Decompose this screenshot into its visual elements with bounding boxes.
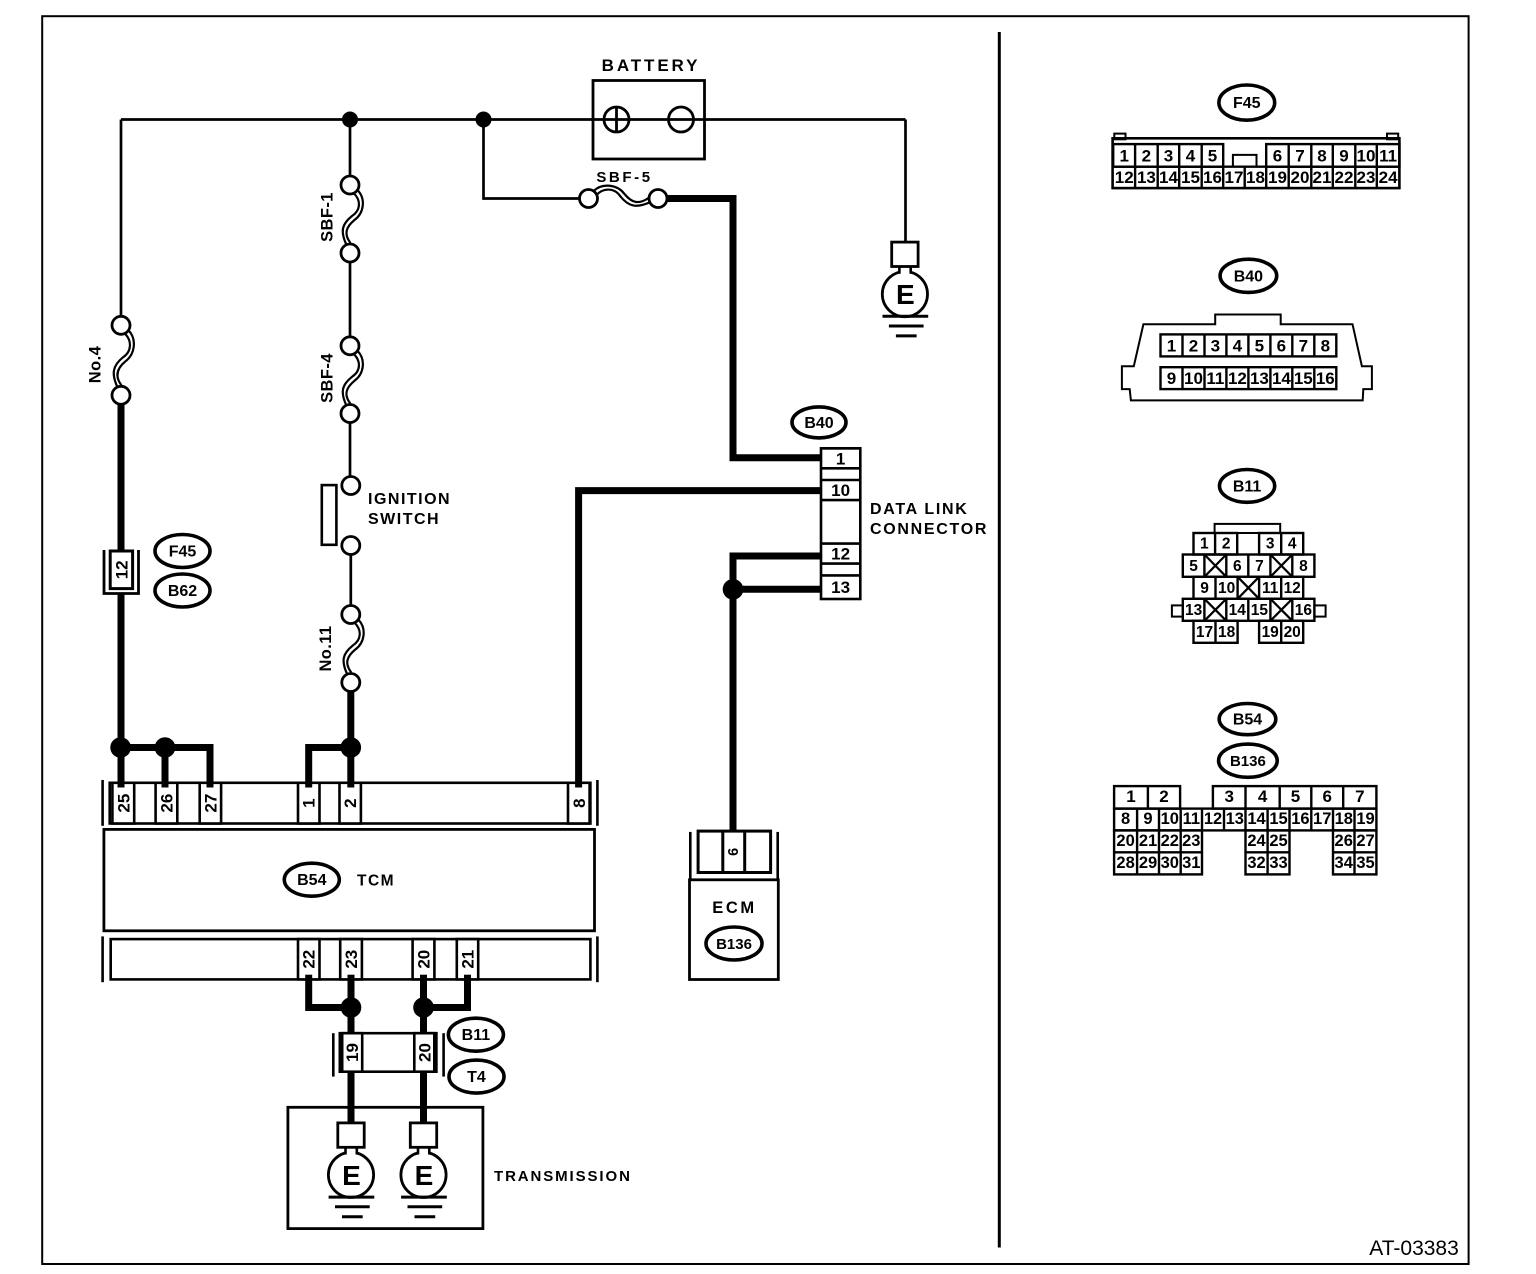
svg-text:13: 13 — [1226, 810, 1244, 828]
wire: junction to data link pin 13 (thick) — [733, 586, 821, 593]
TCM pin 27 — [200, 783, 221, 824]
data link connector divider — [821, 499, 860, 502]
svg-text:27: 27 — [201, 794, 220, 813]
wire: T4 pin 19 to transmission ground (thick) — [348, 1072, 355, 1123]
svg-text:20: 20 — [415, 1043, 434, 1062]
svg-text:15: 15 — [1294, 369, 1313, 388]
ground E (transmission 2) — [401, 1123, 447, 1217]
svg-text:6: 6 — [1273, 147, 1282, 166]
svg-text:19: 19 — [1268, 168, 1287, 187]
svg-text:23: 23 — [1357, 168, 1376, 187]
wire: No.11 to TCM pin 2 (thick) — [347, 692, 354, 783]
data link connector divider — [821, 562, 860, 565]
svg-text:34: 34 — [1335, 854, 1354, 872]
svg-text:22: 22 — [300, 950, 319, 969]
svg-text:6: 6 — [1233, 558, 1242, 575]
svg-text:8: 8 — [1321, 337, 1330, 356]
B54 pins 1-2 — [1114, 786, 1180, 809]
svg-text:18: 18 — [1246, 168, 1265, 187]
connector pinout B136 label — [1219, 744, 1278, 777]
svg-text:B136: B136 — [1230, 753, 1266, 770]
svg-text:1: 1 — [836, 449, 845, 468]
svg-text:T4: T4 — [467, 1069, 486, 1086]
wire: battery bus top horizontal — [121, 118, 906, 121]
svg-text:2: 2 — [1222, 536, 1231, 553]
data link connector pin 13 — [821, 574, 860, 577]
F45 pins 1-5 — [1113, 144, 1223, 167]
connector label B136 (ECM) — [706, 927, 762, 960]
svg-text:24: 24 — [1379, 168, 1398, 187]
svg-text:SWITCH: SWITCH — [368, 511, 440, 528]
svg-text:8: 8 — [1299, 558, 1308, 575]
svg-text:18: 18 — [1218, 624, 1236, 641]
svg-text:AT-03383: AT-03383 — [1369, 1237, 1459, 1260]
connector label B11 (inline) — [448, 1018, 503, 1051]
svg-text:16: 16 — [1316, 369, 1335, 388]
wire: SBF-4 to ignition switch — [349, 423, 352, 477]
connector pinout F45 label — [1219, 85, 1275, 120]
wire: TCM pin 21 branch (thick) — [424, 979, 468, 1007]
svg-text:3: 3 — [1164, 147, 1173, 166]
F45 pins 12-24 — [1113, 165, 1400, 167]
svg-text:B40: B40 — [1234, 268, 1263, 285]
ECM body — [690, 880, 779, 980]
TCM strip left end bar — [101, 780, 104, 826]
connector pinout B40 outline — [1122, 315, 1372, 401]
junction node above pin 2 — [341, 737, 362, 758]
battery positive terminal — [604, 107, 629, 132]
fuse holder bracket (F45/B62) — [104, 550, 139, 594]
svg-text:BATTERY: BATTERY — [602, 56, 701, 75]
wire: T4 pin 20 to transmission ground (thick) — [420, 1072, 427, 1123]
TCM strip right end bar — [596, 780, 599, 826]
svg-text:8: 8 — [1317, 147, 1326, 166]
TCM pin 25 — [112, 783, 134, 824]
svg-text:12: 12 — [1204, 810, 1222, 828]
svg-text:9: 9 — [1143, 810, 1152, 828]
svg-text:27: 27 — [1356, 832, 1374, 850]
svg-text:4: 4 — [1233, 337, 1243, 356]
svg-text:14: 14 — [1229, 602, 1247, 619]
data link connector label — [870, 501, 988, 538]
svg-text:2: 2 — [341, 798, 360, 807]
svg-text:16: 16 — [1203, 168, 1222, 187]
svg-text:B40: B40 — [804, 415, 833, 432]
ignition switch — [322, 477, 360, 555]
T4 connector right end bar — [442, 1033, 445, 1076]
svg-text:29: 29 — [1139, 854, 1157, 872]
svg-text:5: 5 — [1189, 558, 1198, 575]
svg-text:21: 21 — [459, 950, 478, 969]
svg-text:11: 11 — [1379, 147, 1397, 166]
svg-text:9: 9 — [1200, 580, 1209, 597]
B54 pins 8-19 — [1114, 809, 1376, 831]
svg-text:15: 15 — [1181, 168, 1200, 187]
F45 top tab left — [1114, 134, 1125, 140]
svg-text:5: 5 — [1208, 147, 1217, 166]
battery negative terminal — [669, 107, 694, 132]
svg-text:19: 19 — [343, 1043, 362, 1062]
svg-text:B54: B54 — [1233, 712, 1262, 729]
svg-text:8: 8 — [1121, 810, 1130, 828]
svg-text:6: 6 — [1277, 337, 1286, 356]
svg-text:SBF-1: SBF-1 — [319, 192, 337, 242]
svg-text:33: 33 — [1269, 854, 1287, 872]
B11 side tab right — [1314, 605, 1325, 616]
svg-text:11: 11 — [1262, 580, 1279, 597]
ECM connector strip — [698, 831, 771, 872]
svg-text:24: 24 — [1247, 832, 1266, 850]
svg-text:20: 20 — [1284, 624, 1301, 641]
B11 pins 5-8 row — [1183, 555, 1315, 577]
inline connector B11/T4 outer — [340, 1033, 437, 1072]
TCM pin 21 — [457, 939, 478, 979]
svg-text:E: E — [415, 1160, 434, 1191]
svg-text:17: 17 — [1225, 168, 1244, 187]
svg-text:25: 25 — [114, 794, 133, 813]
svg-text:19: 19 — [1262, 624, 1280, 641]
connector label F45 — [155, 535, 210, 568]
svg-text:9: 9 — [1339, 147, 1348, 166]
wire: TCM pin 23 to T4 pin 19 (thick) — [348, 979, 355, 1034]
svg-text:3: 3 — [1266, 536, 1275, 553]
data link connector pin 10 — [821, 479, 860, 482]
junction node: SBF-5 branch — [476, 112, 492, 128]
svg-text:16: 16 — [1291, 810, 1309, 828]
T4 pin 20 — [414, 1033, 434, 1072]
T4 pin 19 — [342, 1033, 362, 1072]
junction node: SBF-1 branch — [342, 112, 358, 128]
data link connector pin 12 — [821, 542, 860, 545]
B11 side tab left — [1172, 605, 1183, 616]
wire: ignition switch to fuse No.11 — [349, 555, 352, 606]
svg-text:17: 17 — [1313, 810, 1331, 828]
svg-text:4: 4 — [1288, 536, 1297, 553]
svg-text:10: 10 — [1218, 580, 1235, 597]
svg-text:7: 7 — [1299, 337, 1308, 356]
TCM pin 1 — [298, 783, 320, 824]
wire: fuse 12 to TCM pin 25 (thick) — [118, 594, 125, 783]
wire: No.4 to fuse holder 12 (thick) — [118, 404, 125, 551]
svg-text:5: 5 — [1255, 337, 1264, 356]
svg-text:26: 26 — [1335, 832, 1353, 850]
connector pinout B54 label — [1219, 704, 1276, 735]
svg-text:IGNITION: IGNITION — [368, 491, 451, 508]
TCM body — [104, 829, 595, 930]
svg-text:10: 10 — [1161, 810, 1179, 828]
svg-text:8: 8 — [570, 798, 589, 807]
svg-text:F45: F45 — [169, 544, 197, 561]
svg-text:13: 13 — [831, 578, 850, 597]
svg-text:30: 30 — [1161, 854, 1179, 872]
svg-text:17: 17 — [1196, 624, 1213, 641]
svg-text:B11: B11 — [462, 1027, 491, 1044]
svg-text:2: 2 — [1159, 787, 1168, 806]
svg-text:12: 12 — [1228, 369, 1247, 388]
svg-text:7: 7 — [1295, 147, 1304, 166]
F45 top tab right — [1387, 134, 1398, 140]
svg-text:F45: F45 — [1233, 95, 1261, 112]
svg-text:1: 1 — [1167, 337, 1176, 356]
junction node below pin 23 — [341, 997, 362, 1018]
wire: drop to pin 26 (thick) — [162, 748, 169, 783]
junction node above pin 26 — [155, 737, 176, 758]
svg-text:TRANSMISSION: TRANSMISSION — [494, 1168, 632, 1185]
svg-text:No.4: No.4 — [87, 345, 105, 383]
svg-text:B62: B62 — [168, 583, 197, 600]
svg-text:20: 20 — [1291, 168, 1310, 187]
wire: TCM pin 22 branch (thick) — [309, 979, 351, 1007]
svg-text:6: 6 — [726, 848, 742, 856]
svg-text:14: 14 — [1159, 168, 1178, 187]
svg-text:5: 5 — [1291, 787, 1300, 806]
TCM bottom connector strip — [111, 939, 591, 979]
svg-text:18: 18 — [1335, 810, 1353, 828]
svg-text:3: 3 — [1224, 787, 1233, 806]
fuse No.4 — [112, 316, 134, 404]
svg-text:21: 21 — [1139, 832, 1157, 850]
connector pinout F45 body — [1113, 138, 1400, 188]
junction node above pin 25 — [110, 737, 131, 758]
F45 pins 6-11 — [1266, 144, 1399, 167]
ground E (transmission 1) — [328, 1123, 374, 1217]
svg-text:20: 20 — [415, 950, 434, 969]
connector label B54 — [284, 863, 339, 896]
fuse No.11 — [342, 606, 364, 692]
data link connector divider — [821, 467, 860, 470]
TCM pin 8 — [568, 783, 590, 824]
svg-text:CONNECTOR: CONNECTOR — [870, 521, 988, 538]
svg-text:10: 10 — [1184, 369, 1203, 388]
TCM pin 22 — [298, 939, 320, 979]
B11 top key — [1215, 524, 1281, 533]
transmission box — [288, 1107, 483, 1228]
svg-text:SBF-4: SBF-4 — [319, 353, 337, 403]
svg-text:1: 1 — [1119, 147, 1128, 166]
wire: branch to TCM pin 26/27 (thick) — [121, 748, 210, 783]
TCM top connector strip — [110, 783, 591, 824]
wire: SBF-5 to data link connector pin 1 (thick) — [667, 199, 821, 458]
wire: data link pin 12 to junction (thick) — [733, 556, 821, 589]
svg-text:6: 6 — [1322, 787, 1331, 806]
wire: TCM pin 20 to T4 pin 20 (thick) — [420, 979, 427, 1034]
svg-text:11: 11 — [1183, 810, 1200, 828]
svg-text:23: 23 — [342, 950, 361, 969]
svg-text:1: 1 — [1126, 787, 1135, 806]
svg-text:2: 2 — [1142, 147, 1151, 166]
B54 pins 20-23 / 28-31 — [1114, 830, 1202, 874]
B11 pins 13-16 row — [1183, 599, 1315, 621]
ignition switch label — [368, 491, 451, 528]
F45 center key — [1233, 155, 1257, 167]
B11 pins 3-4 — [1259, 533, 1303, 555]
connector label T4 — [449, 1060, 504, 1093]
svg-text:16: 16 — [1295, 602, 1313, 619]
svg-text:35: 35 — [1356, 854, 1374, 872]
svg-text:3: 3 — [1211, 337, 1220, 356]
svg-text:19: 19 — [1356, 810, 1374, 828]
svg-text:25: 25 — [1269, 832, 1287, 850]
ground E (battery negative) — [882, 242, 928, 336]
svg-text:TCM: TCM — [357, 873, 395, 890]
svg-text:12: 12 — [1115, 168, 1134, 187]
svg-text:10: 10 — [831, 481, 850, 500]
svg-text:1: 1 — [300, 798, 319, 807]
svg-text:14: 14 — [1272, 369, 1291, 388]
connector pinout B40 label — [1220, 259, 1277, 292]
svg-text:14: 14 — [1247, 810, 1266, 828]
svg-text:32: 32 — [1247, 854, 1265, 872]
svg-text:13: 13 — [1250, 369, 1269, 388]
ECM strip left end bar — [689, 832, 692, 880]
svg-text:26: 26 — [157, 794, 176, 813]
connector label B40 (data link) — [792, 407, 846, 438]
svg-text:7: 7 — [1355, 787, 1364, 806]
svg-text:No.11: No.11 — [317, 625, 335, 671]
wire: left drop to fuse No.4 — [120, 120, 123, 317]
B40 pins 1-8 — [1161, 334, 1337, 356]
battery box — [593, 81, 705, 160]
svg-text:2: 2 — [1189, 337, 1198, 356]
fuse SBF-5 — [580, 186, 668, 208]
ECM strip right end bar — [776, 832, 779, 880]
wire: right drop battery to ground E — [904, 120, 907, 243]
svg-text:13: 13 — [1185, 602, 1203, 619]
TCM pin 26 — [156, 783, 178, 824]
B54 pins 26-27 / 34-35 — [1333, 830, 1376, 874]
svg-text:15: 15 — [1269, 810, 1287, 828]
B11 pins 19-20 — [1259, 621, 1303, 643]
wire stubs into TCM pin cells — [118, 783, 125, 788]
svg-text:SBF-5: SBF-5 — [596, 169, 652, 186]
data link connector pin 1 — [821, 447, 860, 450]
fuse SBF-4 — [341, 337, 363, 423]
connector label B62 — [155, 574, 210, 607]
B11 pins 9-12 row — [1194, 577, 1304, 599]
B54 pins 24-25 / 32-33 — [1246, 830, 1290, 874]
wire: junction to ECM pin 6 (thick) — [730, 589, 737, 830]
B11 pins 17-18 — [1194, 621, 1238, 643]
svg-text:12: 12 — [1284, 580, 1301, 597]
data link connector box — [821, 448, 860, 599]
svg-text:12: 12 — [112, 560, 131, 579]
wire: drop to SBF-5 — [484, 120, 580, 199]
svg-text:31: 31 — [1182, 854, 1200, 872]
B11 pins 1-2 — [1194, 533, 1238, 555]
svg-text:12: 12 — [831, 545, 850, 564]
divider line between schematic and connector views — [998, 32, 1001, 1248]
svg-text:23: 23 — [1182, 832, 1200, 850]
TCM pin 23 — [340, 939, 362, 979]
wire: branch to TCM pin 1 (thick) — [309, 748, 351, 783]
wire: drop to SBF-1 — [349, 120, 352, 177]
svg-text:B136: B136 — [716, 936, 752, 953]
junction node below pin 20 — [413, 997, 434, 1018]
svg-text:15: 15 — [1251, 602, 1269, 619]
svg-text:22: 22 — [1335, 168, 1354, 187]
wire: SBF-1 to SBF-4 — [349, 262, 352, 337]
TCM pin 2 — [340, 783, 361, 824]
junction node data link — [723, 579, 744, 600]
svg-text:B54: B54 — [297, 872, 326, 889]
fuse SBF-1 — [341, 176, 363, 262]
svg-text:E: E — [896, 279, 915, 310]
svg-text:28: 28 — [1116, 854, 1134, 872]
svg-text:22: 22 — [1161, 832, 1179, 850]
svg-text:ECM: ECM — [712, 899, 756, 917]
svg-text:E: E — [342, 1160, 361, 1191]
wire: TCM pin 8 to data link connector pin 10 (thick) — [579, 491, 821, 783]
B54 pins 3-7 — [1213, 786, 1377, 809]
svg-text:7: 7 — [1255, 558, 1264, 575]
svg-text:4: 4 — [1186, 147, 1196, 166]
svg-text:4: 4 — [1258, 787, 1268, 806]
svg-text:20: 20 — [1116, 832, 1134, 850]
connector pinout B11 label — [1220, 470, 1275, 503]
T4 connector left end bar — [332, 1033, 335, 1076]
svg-text:11: 11 — [1206, 369, 1224, 388]
TCM bottom strip left end bar — [101, 936, 104, 982]
svg-text:1: 1 — [1200, 536, 1209, 553]
B40 pins 9-16 — [1161, 367, 1337, 389]
svg-text:B11: B11 — [1233, 478, 1262, 495]
TCM pin 20 — [413, 939, 435, 979]
svg-text:21: 21 — [1313, 168, 1332, 187]
svg-text:9: 9 — [1167, 369, 1176, 388]
svg-text:13: 13 — [1137, 168, 1156, 187]
TCM bottom strip right end bar — [596, 936, 599, 982]
svg-text:DATA LINK: DATA LINK — [870, 501, 969, 518]
svg-text:10: 10 — [1357, 147, 1376, 166]
